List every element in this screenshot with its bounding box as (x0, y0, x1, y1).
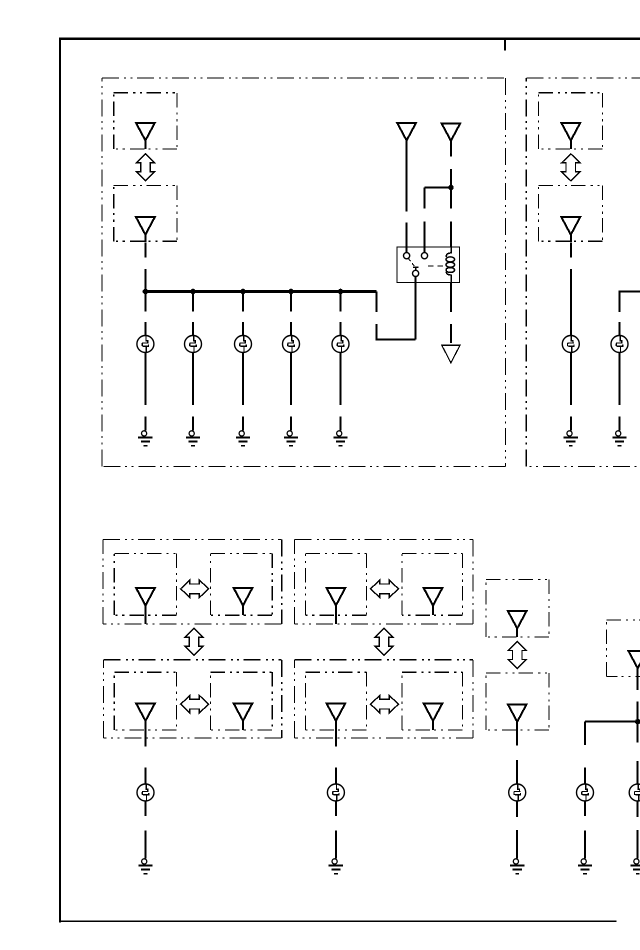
connector triangle E (508, 611, 527, 629)
wire below lamp E3 (242, 353, 244, 406)
mirror unit C enclosure (104, 660, 282, 738)
connector block A1 (114, 93, 177, 149)
lamp E9 (327, 784, 344, 801)
branch wire vertical (424, 188, 426, 253)
junction dot J4 (288, 289, 294, 295)
mirror unit C connector triangle left (136, 703, 155, 721)
junction dot J7 (635, 719, 640, 725)
wire below lamp F1 (570, 353, 572, 406)
ground G5 (333, 417, 347, 446)
mirror unit D connector triangle right (424, 703, 443, 721)
lamp E11 (629, 784, 640, 801)
lamp E4 (283, 336, 300, 353)
mirror unit A connector block left (114, 553, 176, 615)
wire below lamp E5 (340, 353, 342, 406)
wire below lamp E4 (290, 353, 292, 406)
mirror unit B wire stem left (335, 605, 337, 624)
lamp E8 (137, 784, 154, 801)
wire to lamp E8 (145, 768, 147, 785)
wire stem E (516, 628, 518, 637)
wire to ground E9 (335, 831, 337, 846)
mirror unit C wire stem right (242, 721, 244, 731)
mirror unit C mating arrow (181, 695, 209, 713)
connector triangle X1 (136, 123, 155, 141)
ground G8 (138, 845, 152, 874)
wire from X3 to relay (406, 141, 408, 253)
connector triangle F (508, 704, 527, 722)
relay armature bar (413, 267, 418, 270)
feed wire from right (620, 291, 640, 293)
ground G11 (631, 845, 640, 874)
wire below lamp E12 (584, 801, 586, 816)
wire to ground E12 (584, 831, 586, 846)
junction dot J3 (240, 289, 246, 295)
ground G3 (236, 417, 250, 446)
mirror unit C connector block right (210, 672, 272, 730)
lamp E5 (332, 336, 349, 353)
wire stem below C (145, 738, 147, 746)
repeater box E (486, 580, 549, 638)
section enclosure 1 (interior lamps group) (102, 78, 506, 467)
connector block A2 (114, 185, 177, 241)
ground G2 (186, 417, 200, 446)
wire below lamp E8 (145, 801, 147, 816)
ground G6 (564, 417, 578, 446)
connector triangle Y1 (561, 123, 580, 141)
wire stem Y1 (570, 141, 572, 149)
lamp E2 (185, 336, 202, 353)
mirror unit A connector block right (210, 553, 272, 615)
connector triangle X2 (136, 217, 155, 235)
wire below lamp E1 (144, 353, 146, 406)
bus branch wire (376, 292, 416, 341)
wire to lamp E2 (192, 292, 194, 336)
mating arrow B1-B2 (562, 154, 580, 181)
wire to ground E8 (145, 831, 147, 846)
relay output wire (415, 277, 417, 340)
lamp E3 (235, 336, 252, 353)
relay K1 box (397, 247, 460, 283)
wire to lamp E1 (144, 292, 146, 336)
off-page connector triangle X5 (442, 345, 461, 363)
wire to lamp E3 (242, 292, 244, 336)
wire to lamp F2 (619, 291, 621, 336)
ground G10 (510, 845, 524, 874)
mirror unit D enclosure (295, 660, 473, 738)
relay terminal 1 (404, 253, 410, 259)
relay terminal 3 (413, 270, 419, 276)
wire W1 (144, 243, 146, 292)
repeater box G (clipped) (607, 620, 640, 677)
lamp E10 (509, 784, 526, 801)
wire to lamp E9 (335, 768, 337, 785)
mating arrow A1-A2 (136, 154, 154, 181)
mirror unit A mating arrow (181, 580, 209, 598)
mirror unit B enclosure (295, 540, 473, 625)
lamp F2 (611, 336, 628, 353)
wire W2 (570, 243, 572, 336)
wire from G (637, 669, 639, 722)
junction dot J6 (448, 185, 454, 191)
lamp F1 (562, 336, 579, 353)
connector block B1 (539, 93, 603, 149)
wire below lamp F2 (619, 353, 621, 406)
wire below lamp E9 (335, 801, 337, 816)
repeater box F (486, 673, 549, 730)
ground G4 (284, 417, 298, 446)
wire stem Y2 (570, 235, 572, 243)
ground G9 (329, 845, 343, 874)
wire stem F (516, 722, 518, 746)
wire below lamp E11 (637, 801, 639, 817)
tie wire (585, 721, 640, 723)
wire below lamp E2 (192, 353, 194, 406)
mirror unit A connector triangle left (136, 588, 155, 606)
relay terminal 2 (421, 253, 427, 259)
relay coil dashed link (428, 265, 444, 267)
wire to lamp E4 (290, 292, 292, 336)
lamp E12 (577, 784, 594, 801)
relay coil (446, 247, 455, 283)
junction dot J5 (338, 289, 344, 295)
wire stem below D (335, 738, 337, 746)
mirror unit D connector block right (402, 672, 463, 730)
section enclosure 2 (right lamps group, clipped) (526, 78, 640, 467)
wire stem X1 (144, 141, 146, 149)
connector block B2 (539, 185, 603, 241)
mating arrow B-D (375, 628, 393, 655)
mirror unit C connector triangle right (234, 703, 253, 721)
bus wire (144, 290, 376, 293)
junction dot J2 (190, 289, 196, 295)
relay coil output wire (450, 283, 452, 343)
wire to lamp E5 (340, 292, 342, 336)
mirror unit C connector block left (114, 672, 176, 730)
wire to lamp E12 (584, 722, 586, 784)
mirror unit D connector block left (306, 672, 367, 730)
mirror unit D connector triangle left (327, 703, 346, 721)
wire to ground E10 (516, 830, 518, 845)
dashed wire from X4 (450, 141, 452, 247)
wire to lamp E11 (637, 722, 639, 784)
mirror unit B connector triangle right (424, 588, 443, 606)
wire to lamp E10 (516, 760, 518, 784)
mirror unit B connector block right (402, 553, 463, 615)
mating arrow A-C (185, 628, 203, 655)
mirror unit C wire stem left (145, 721, 147, 739)
mirror unit D wire stem right (432, 721, 434, 731)
ground G7 (612, 417, 626, 446)
mirror unit B mating arrow (371, 580, 399, 598)
lamp E1 (137, 336, 154, 353)
mirror unit D wire stem left (335, 721, 337, 739)
mirror unit A connector triangle right (234, 588, 253, 606)
relay switch arm (408, 258, 415, 266)
junction dot J1 (143, 289, 149, 295)
mirror unit B connector block left (306, 553, 367, 615)
wire below lamp E10 (516, 801, 518, 817)
connector triangle G (628, 651, 640, 669)
wire stem X2 (144, 235, 146, 243)
mirror unit A wire stem left (145, 605, 147, 624)
mating arrow E-F (508, 642, 526, 669)
mirror unit B connector triangle left (327, 588, 346, 606)
connector triangle X4 (442, 123, 461, 141)
connector triangle Y2 (561, 217, 580, 235)
ground G12 (578, 845, 592, 874)
connector triangle X3 (397, 123, 416, 141)
wire to ground E11 (637, 830, 639, 845)
branch wire horizontal (425, 187, 451, 189)
mirror unit A enclosure (103, 540, 282, 625)
mirror unit B wire stem right (432, 605, 434, 615)
mirror unit D mating arrow (371, 695, 399, 713)
ground G1 (138, 417, 152, 446)
mirror unit A wire stem right (242, 605, 244, 615)
